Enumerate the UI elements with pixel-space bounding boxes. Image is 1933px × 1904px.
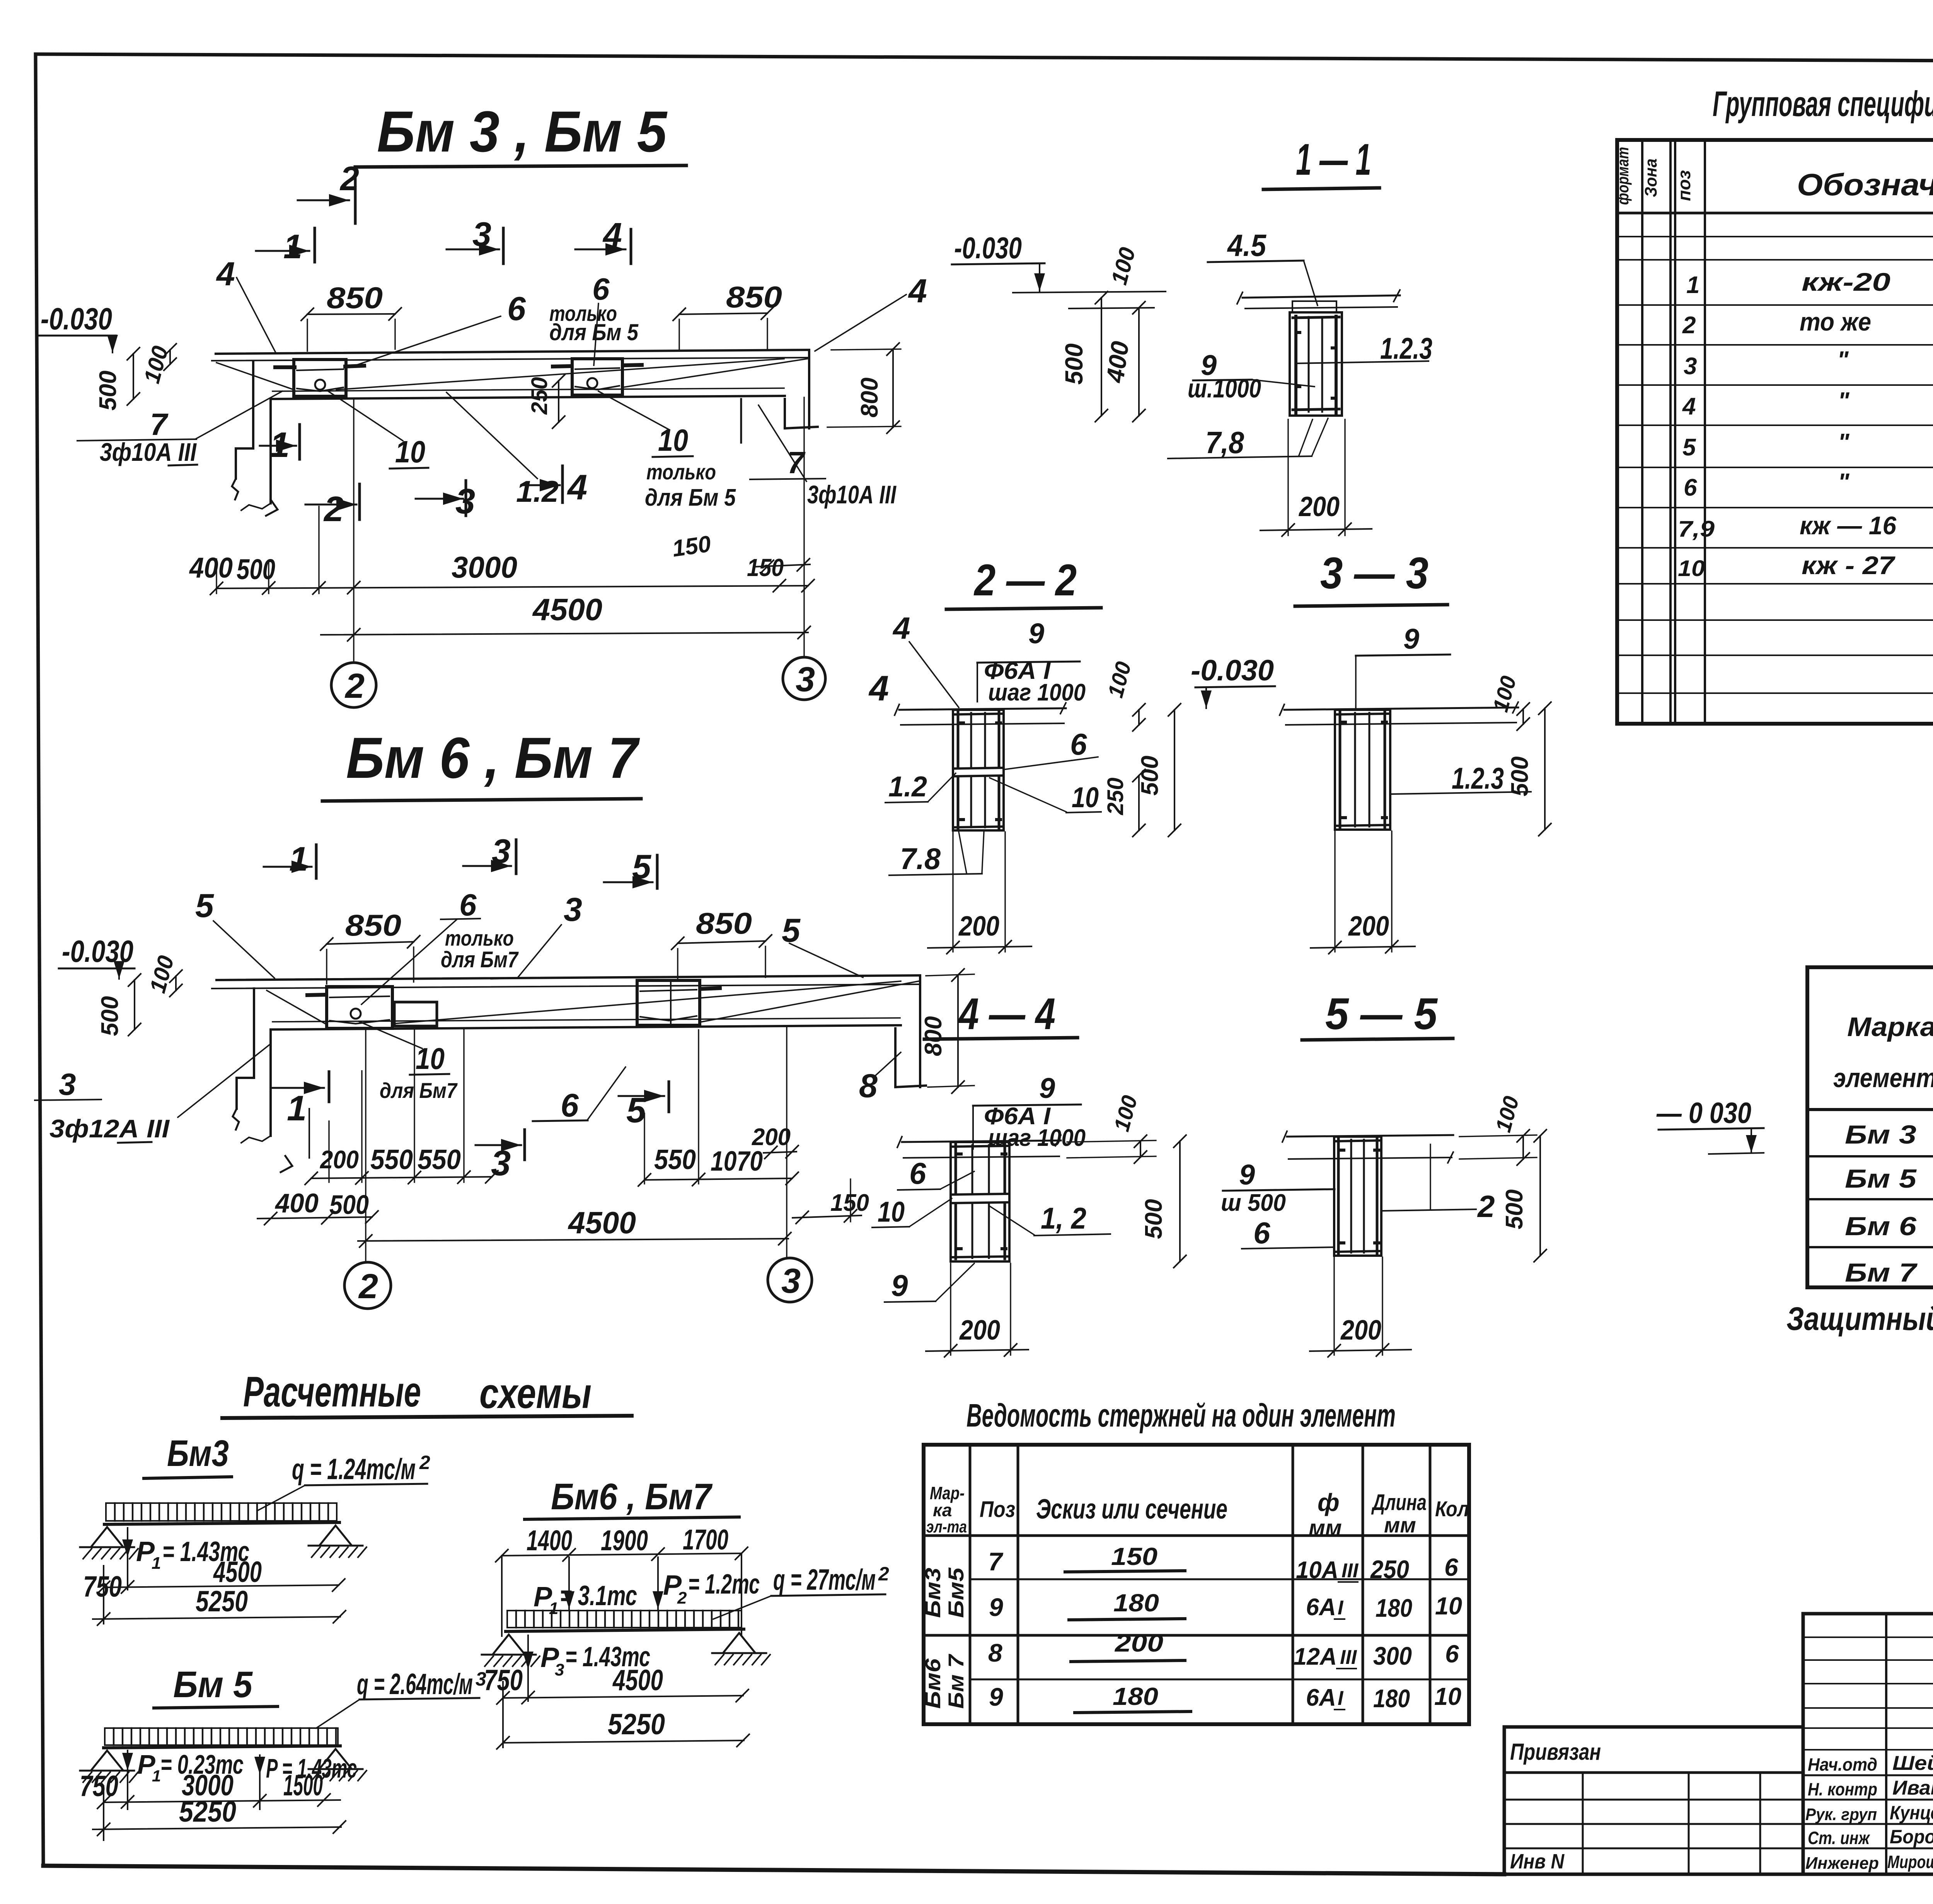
- svg-text:10: 10: [1678, 556, 1705, 581]
- svg-text:1, 2: 1, 2: [1041, 1201, 1086, 1235]
- svg-text:2 — 2: 2 — 2: [973, 556, 1077, 605]
- svg-text:Рук. груп: Рук. груп: [1805, 1805, 1877, 1824]
- спецификация header row: [1617, 212, 1933, 215]
- svg-text:Бм 7: Бм 7: [944, 1653, 968, 1709]
- svg-text:Расчетные: Расчетные: [243, 1368, 421, 1416]
- svg-text:150: 150: [670, 531, 712, 562]
- section 2-2 rebar cage upper: [957, 712, 960, 767]
- svg-text:6А: 6А: [1306, 1684, 1336, 1711]
- svg-text:Ведомость стержней на один эле: Ведомость стержней на один элемент: [966, 1397, 1396, 1434]
- svg-text:1: 1: [549, 1599, 558, 1618]
- svg-text:Инв N: Инв N: [1510, 1850, 1565, 1873]
- svg-text:12А: 12А: [1294, 1643, 1337, 1670]
- svg-text:": ": [1838, 429, 1850, 456]
- svg-text:1700: 1700: [683, 1524, 728, 1556]
- svg-text:500: 500: [1501, 1190, 1528, 1229]
- dim 850 right Бм6Бм7: [678, 941, 765, 943]
- svg-text:кж — 16: кж — 16: [1800, 511, 1897, 540]
- svg-text:4: 4: [908, 273, 927, 310]
- svg-text:10: 10: [1435, 1592, 1462, 1620]
- beam Бм6Бм7 slab top line: [216, 975, 920, 980]
- section 3-3 rebar cage: [1339, 712, 1342, 827]
- svg-text:200: 200: [1115, 1629, 1163, 1657]
- выборка outer box: [1807, 967, 1933, 1287]
- dim 850 left top: [307, 314, 395, 314]
- svg-text:8: 8: [988, 1638, 1002, 1667]
- section 2-2 mid stirrup band: [954, 768, 1003, 769]
- svg-text:Поз: Поз: [980, 1497, 1015, 1522]
- svg-text:5 — 5: 5 — 5: [1325, 989, 1438, 1039]
- dim 850 left Бм6Бм7: [327, 942, 414, 944]
- section 1-1 slab level extension lines: [1013, 291, 1166, 293]
- section 3-3 web: [1335, 710, 1390, 830]
- svg-text:1.2: 1.2: [888, 770, 927, 803]
- svg-text:850: 850: [327, 281, 383, 315]
- svg-text:500: 500: [95, 371, 121, 411]
- svg-text:150: 150: [747, 554, 784, 581]
- svg-text:для Бм 5: для Бм 5: [549, 319, 639, 345]
- scheme Бм3 beam: [104, 1522, 339, 1524]
- svg-text:6: 6: [459, 888, 477, 922]
- svg-text:Нач.отд: Нач.отд: [1808, 1754, 1877, 1774]
- спецификация vertical lines: [1641, 140, 1643, 724]
- svg-text:3: 3: [564, 891, 582, 928]
- svg-text:Бм6: Бм6: [920, 1658, 945, 1709]
- signature table verticals: [1885, 1614, 1887, 1874]
- svg-text:Бм 3 , Бм 5: Бм 3 , Бм 5: [377, 99, 668, 164]
- svg-text:6: 6: [909, 1156, 926, 1190]
- svg-text:формат: формат: [1614, 147, 1632, 205]
- svg-text:шаг 1000: шаг 1000: [988, 1125, 1086, 1151]
- svg-text:-0.030: -0.030: [954, 231, 1022, 265]
- beam Бм6Бм7 beam bottom line: [271, 1025, 901, 1030]
- svg-text:1.2.3: 1.2.3: [1452, 761, 1504, 795]
- svg-text:4: 4: [1682, 393, 1696, 420]
- svg-text:6: 6: [1070, 727, 1087, 761]
- svg-text:I: I: [1338, 1597, 1344, 1619]
- svg-text:4500: 4500: [213, 1556, 262, 1589]
- bent rebar diagonals Бм6Бм7: [392, 981, 901, 1024]
- svg-text:мм: мм: [1384, 1513, 1416, 1537]
- svg-text:q = 1.24тс/м: q = 1.24тс/м: [292, 1453, 416, 1486]
- svg-text:1 — 1: 1 — 1: [1296, 135, 1371, 184]
- svg-text:3ф10А III: 3ф10А III: [807, 480, 897, 509]
- scheme Бм5 load strip: [105, 1728, 338, 1745]
- svg-text:550: 550: [418, 1144, 461, 1175]
- svg-text:100: 100: [1109, 1093, 1142, 1134]
- svg-text:Кунцевич: Кунцевич: [1890, 1802, 1933, 1824]
- beam Бм3/Бм5 beam bottom line: [271, 396, 785, 399]
- svg-text:III: III: [1342, 1560, 1359, 1582]
- svg-text:Бм 7: Бм 7: [1845, 1258, 1918, 1287]
- svg-text:1070: 1070: [711, 1146, 763, 1177]
- svg-text:10: 10: [395, 435, 425, 469]
- svg-text:-0.030: -0.030: [1191, 654, 1274, 687]
- svg-text:400: 400: [274, 1188, 319, 1218]
- svg-text:I: I: [1338, 1687, 1344, 1710]
- svg-text:4.5: 4.5: [1227, 228, 1267, 263]
- svg-text:10: 10: [878, 1196, 905, 1228]
- svg-text:3 — 3: 3 — 3: [1320, 549, 1428, 598]
- svg-text:2: 2: [419, 1452, 430, 1473]
- ведомость table header row line: [924, 1534, 1469, 1537]
- svg-text:1: 1: [287, 1089, 307, 1128]
- page frame bottom border: [43, 1866, 1504, 1874]
- svg-text:Бм 6: Бм 6: [1845, 1212, 1917, 1241]
- svg-text:Ст. инж: Ст. инж: [1808, 1828, 1870, 1848]
- column axis 2 Бм3Бм5: [353, 400, 354, 663]
- svg-text:2: 2: [358, 1267, 378, 1306]
- svg-text:": ": [1837, 347, 1849, 373]
- svg-text:2: 2: [1682, 312, 1696, 339]
- svg-text:1500: 1500: [283, 1769, 323, 1802]
- svg-text:эл-та: эл-та: [926, 1517, 967, 1536]
- svg-text:3ф12А III: 3ф12А III: [49, 1114, 170, 1143]
- svg-text:1900: 1900: [601, 1524, 648, 1556]
- svg-text:550: 550: [654, 1144, 696, 1175]
- svg-text:6: 6: [561, 1087, 579, 1123]
- beam lower rebar line Бм6Бм7: [273, 1018, 900, 1022]
- svg-text:3000: 3000: [452, 550, 517, 584]
- svg-text:кж - 27: кж - 27: [1802, 551, 1896, 580]
- svg-text:250: 250: [1370, 1555, 1409, 1584]
- svg-text:6: 6: [1444, 1553, 1458, 1581]
- svg-text:4: 4: [868, 669, 889, 708]
- ведомость table row lines: [970, 1578, 1469, 1580]
- scheme Бм5 left support: [91, 1751, 123, 1771]
- svg-text:9: 9: [1039, 1072, 1055, 1104]
- svg-text:10: 10: [658, 423, 688, 457]
- embedded part Mn5 right: [572, 359, 622, 395]
- svg-text:9: 9: [1028, 617, 1044, 649]
- svg-text:5250: 5250: [608, 1708, 665, 1741]
- привязан box outer: [1504, 1727, 1803, 1874]
- спецификация outer box: [1617, 140, 1933, 724]
- svg-text:4500: 4500: [612, 1664, 663, 1697]
- svg-text:Боровик: Боровик: [1890, 1826, 1933, 1848]
- signature table mini rows: [1803, 1636, 1933, 1638]
- svg-text:850: 850: [726, 280, 782, 314]
- svg-text:850: 850: [696, 906, 752, 940]
- svg-text:6: 6: [507, 290, 526, 327]
- svg-text:ф: ф: [1318, 1488, 1340, 1516]
- scheme Бм6Бм7 right support: [723, 1633, 755, 1653]
- svg-text:III: III: [1340, 1646, 1357, 1669]
- svg-text:Длина: Длина: [1371, 1490, 1427, 1515]
- svg-text:150: 150: [1111, 1543, 1157, 1570]
- svg-text:1.2.3: 1.2.3: [1380, 331, 1432, 365]
- svg-text:200: 200: [1298, 491, 1340, 522]
- svg-text:8: 8: [859, 1067, 878, 1105]
- svg-text:Групповая спецификация для мон: Групповая спецификация для монолитных эл…: [1713, 84, 1933, 124]
- svg-text:Привязан: Привязан: [1510, 1739, 1601, 1765]
- svg-text:4: 4: [216, 256, 235, 293]
- svg-text:Кол: Кол: [1435, 1497, 1469, 1521]
- right wall support Бм3/Бм5: [808, 350, 810, 428]
- svg-text:500: 500: [237, 553, 275, 585]
- section 2-2 web: [953, 710, 1004, 830]
- ведомость table verticals: [969, 1445, 972, 1724]
- svg-text:800: 800: [856, 378, 883, 418]
- svg-text:4500: 4500: [568, 1205, 636, 1240]
- svg-text:6: 6: [1684, 474, 1697, 501]
- svg-text:200: 200: [1340, 1315, 1381, 1346]
- svg-text:1400: 1400: [527, 1524, 572, 1556]
- svg-text:Бм 5: Бм 5: [173, 1664, 253, 1705]
- svg-text:4500: 4500: [532, 592, 602, 627]
- svg-text:Бм5: Бм5: [944, 1567, 968, 1618]
- section 4-4 rebar cage lower: [955, 1204, 957, 1259]
- svg-text:Бм3: Бм3: [167, 1433, 229, 1474]
- svg-text:Шейко: Шейко: [1892, 1752, 1933, 1774]
- svg-text:200: 200: [959, 1315, 1000, 1346]
- svg-text:550: 550: [370, 1144, 413, 1175]
- svg-text:9: 9: [891, 1268, 908, 1302]
- svg-text:300: 300: [1373, 1641, 1412, 1670]
- svg-text:500: 500: [97, 996, 123, 1036]
- section 1-1 top flange box: [1292, 301, 1336, 312]
- svg-text:2: 2: [1477, 1189, 1495, 1224]
- svg-text:5250: 5250: [179, 1795, 236, 1828]
- svg-text:3: 3: [555, 1660, 564, 1679]
- scheme Бм5 right support: [319, 1749, 352, 1769]
- right wall support Бм6Бм7: [919, 975, 921, 1087]
- column axis 3 Бм6Бм7: [786, 1026, 787, 1257]
- svg-text:только: только: [646, 460, 716, 484]
- svg-text:500: 500: [1140, 1199, 1167, 1239]
- section 4-4 slab: [902, 1140, 1061, 1142]
- section 1-1 web: [1290, 312, 1342, 416]
- svg-text:3: 3: [1684, 353, 1697, 380]
- section 4-4 rebar cage upper: [955, 1144, 957, 1193]
- column axis 2 Бм6Бм7: [365, 1030, 366, 1261]
- svg-text:": ": [1838, 469, 1850, 496]
- svg-text:q = 27тс/м: q = 27тс/м: [773, 1563, 876, 1596]
- svg-text:6: 6: [1253, 1216, 1270, 1250]
- svg-text:6А: 6А: [1306, 1594, 1336, 1621]
- ведомость table outer box: [924, 1445, 1469, 1724]
- svg-text:7: 7: [150, 407, 169, 441]
- scheme Бм5 beam: [104, 1746, 340, 1748]
- section 4-4 mid stirrup band: [952, 1194, 1008, 1195]
- svg-text:250: 250: [1103, 777, 1128, 815]
- svg-text:Инженер: Инженер: [1805, 1854, 1879, 1873]
- svg-text:9: 9: [989, 1682, 1003, 1711]
- svg-text:7.8: 7.8: [900, 842, 941, 876]
- svg-text:3: 3: [796, 660, 815, 699]
- beam Бм3/Бм5 slab top line: [216, 350, 809, 354]
- svg-text:500: 500: [1137, 756, 1163, 796]
- svg-text:3: 3: [491, 1144, 511, 1183]
- svg-text:Зона: Зона: [1642, 159, 1660, 197]
- svg-text:400: 400: [1101, 339, 1134, 385]
- svg-text:500: 500: [1060, 343, 1088, 385]
- svg-text:180: 180: [1376, 1594, 1412, 1622]
- scheme Бм3 load strip: [106, 1503, 337, 1521]
- svg-text:180: 180: [1113, 1682, 1158, 1710]
- section 1-1 slab: [1243, 295, 1400, 298]
- svg-text:элемента: элемента: [1833, 1063, 1933, 1093]
- svg-text:Бм3: Бм3: [920, 1568, 945, 1618]
- svg-text:": ": [1838, 388, 1850, 414]
- scheme Бм3 right support: [319, 1526, 352, 1546]
- svg-text:100: 100: [139, 343, 173, 386]
- svg-text:750: 750: [80, 1770, 118, 1803]
- beam lower rebar line Бм3Бм5: [273, 388, 784, 391]
- svg-text:2: 2: [878, 1563, 889, 1585]
- svg-text:9: 9: [1403, 623, 1419, 655]
- svg-text:Н. контр: Н. контр: [1808, 1779, 1877, 1799]
- svg-text:400: 400: [189, 552, 233, 584]
- svg-text:200: 200: [958, 911, 999, 942]
- svg-text:Бм 6 , Бм 7: Бм 6 , Бм 7: [346, 725, 640, 790]
- embedded part Mn5 left: [294, 360, 346, 396]
- section 3-3 slab: [1284, 707, 1518, 710]
- section 1-1 rebar cage: [1294, 316, 1297, 413]
- scheme Бм6Бм7 load strip: [507, 1611, 741, 1628]
- svg-text:Бм 5: Бм 5: [1845, 1164, 1917, 1193]
- выборка body row lines: [1807, 1155, 1933, 1157]
- спецификация thin row lines: [1617, 236, 1933, 237]
- svg-text:5250: 5250: [196, 1585, 248, 1618]
- svg-text:— 0 030: — 0 030: [1656, 1097, 1751, 1130]
- signature table outer: [1803, 1614, 1933, 1874]
- svg-text:Защитный слой бетона д: Защитный слой бетона до рабочей арматуры…: [1786, 1301, 1933, 1337]
- section 5-5 rebar cage: [1337, 1139, 1340, 1253]
- svg-text:800: 800: [920, 1016, 947, 1056]
- section 4-4 web: [951, 1142, 1009, 1261]
- svg-text:Бм6 , Бм7: Бм6 , Бм7: [551, 1476, 713, 1517]
- beam Бм3/Бм5 slab bottom line: [212, 358, 808, 361]
- svg-text:для Бм7: для Бм7: [380, 1078, 458, 1103]
- svg-text:мм: мм: [1309, 1515, 1342, 1541]
- embedded part left Бм6Бм7: [327, 987, 392, 1028]
- svg-text:Эскиз или сечение: Эскиз или сечение: [1036, 1494, 1227, 1525]
- bent rebar diagonals Бм3/Бм5: [336, 359, 784, 390]
- svg-text:кж-20: кж-20: [1802, 268, 1890, 296]
- svg-text:для Бм 5: для Бм 5: [645, 484, 736, 511]
- svg-text:ш.1000: ш.1000: [1188, 374, 1261, 403]
- svg-text:3: 3: [59, 1067, 76, 1101]
- svg-text:Иванов: Иванов: [1892, 1777, 1933, 1799]
- svg-text:100: 100: [1106, 245, 1140, 287]
- left wall section Бм6Бм7: [237, 989, 254, 1109]
- svg-text:100: 100: [145, 953, 179, 995]
- section 5-5 web: [1334, 1137, 1381, 1256]
- section 2-2 slab: [899, 708, 1066, 710]
- signature table row lines: [1803, 1774, 1933, 1776]
- scheme Бм6Бм7 left support: [493, 1635, 525, 1655]
- svg-text:6: 6: [1445, 1640, 1459, 1668]
- svg-text:180: 180: [1113, 1589, 1159, 1617]
- svg-text:1: 1: [152, 1554, 161, 1573]
- svg-text:3: 3: [781, 1262, 801, 1301]
- svg-text:180: 180: [1373, 1684, 1410, 1713]
- svg-text:850: 850: [345, 908, 401, 942]
- embedded part right Бм6Бм7: [637, 980, 700, 1025]
- column axis 3 Бм3Бм5: [803, 397, 805, 657]
- svg-text:3ф10А III: 3ф10А III: [100, 438, 197, 466]
- svg-text:4: 4: [892, 611, 910, 645]
- svg-text:2: 2: [677, 1589, 687, 1607]
- svg-text:9: 9: [1239, 1159, 1255, 1191]
- section 2-2 rebar cage lower: [957, 777, 960, 828]
- scheme Бм3 left support: [91, 1527, 123, 1547]
- svg-text:Бм 3: Бм 3: [1845, 1120, 1916, 1149]
- svg-text:только: только: [445, 926, 514, 950]
- svg-text:-0.030: -0.030: [41, 302, 112, 336]
- svg-text:1: 1: [1686, 272, 1699, 298]
- beam Бм6Бм7 slab bottom line: [212, 984, 919, 989]
- svg-text:Марка: Марка: [1847, 1012, 1933, 1042]
- svg-text:Обозначение: Обозначение: [1797, 167, 1933, 202]
- svg-text:= 1.2тс: = 1.2тс: [688, 1569, 760, 1600]
- svg-text:10А: 10А: [1296, 1557, 1338, 1584]
- svg-text:500: 500: [1507, 757, 1533, 796]
- svg-text:1: 1: [152, 1767, 161, 1785]
- svg-text:4 — 4: 4 — 4: [958, 989, 1055, 1039]
- svg-text:шаг 1000: шаг 1000: [988, 679, 1086, 706]
- svg-text:7,9: 7,9: [1678, 516, 1715, 542]
- page frame left border: [36, 54, 43, 1866]
- svg-text:q = 2.64тс/м: q = 2.64тс/м: [357, 1668, 473, 1701]
- svg-text:10: 10: [1072, 781, 1099, 813]
- extra insert box для Бм7: [394, 1002, 437, 1026]
- svg-text:10: 10: [416, 1041, 445, 1076]
- svg-text:500: 500: [329, 1190, 369, 1220]
- svg-text:для Бм7: для Бм7: [441, 947, 519, 972]
- svg-text:150: 150: [830, 1190, 869, 1216]
- svg-text:200: 200: [1348, 911, 1389, 942]
- svg-text:100: 100: [1491, 1094, 1524, 1135]
- scheme Бм6Бм7 beam: [506, 1629, 744, 1631]
- svg-text:7,8: 7,8: [1205, 425, 1244, 460]
- svg-text:то же: то же: [1800, 307, 1871, 336]
- svg-text:2: 2: [344, 667, 365, 706]
- svg-text:5: 5: [195, 887, 214, 924]
- svg-text:4: 4: [567, 468, 587, 507]
- привязан box inner lines: [1504, 1771, 1803, 1774]
- svg-text:100: 100: [1103, 659, 1136, 701]
- svg-text:10: 10: [1434, 1682, 1461, 1710]
- svg-text:7: 7: [988, 1547, 1004, 1576]
- svg-text:Мирошникова: Мирошникова: [1887, 1852, 1933, 1872]
- svg-text:200: 200: [319, 1145, 359, 1174]
- svg-text:9: 9: [989, 1593, 1003, 1621]
- dim 850 right top: [679, 313, 767, 314]
- svg-text:5: 5: [1682, 434, 1696, 461]
- svg-text:ш 500: ш 500: [1221, 1190, 1286, 1216]
- svg-text:250: 250: [527, 377, 552, 415]
- section 5-5 slab: [1287, 1135, 1453, 1137]
- svg-text:схемы: схемы: [479, 1370, 591, 1417]
- page frame top border: [36, 54, 1933, 63]
- left wall section Бм3/Бм5: [236, 361, 253, 479]
- svg-text:поз: поз: [1674, 170, 1694, 201]
